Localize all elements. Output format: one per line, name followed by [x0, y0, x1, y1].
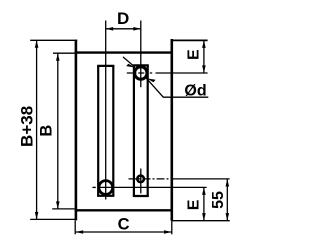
centerline small hole horizontal / 55 extension — [129, 178, 172, 180]
centerline top circle horizontal — [127, 72, 152, 74]
centerline left circle horizontal / E extension — [92, 186, 95, 188]
right slot small bottom hole — [137, 176, 144, 183]
extension line E top right — [171, 39, 208, 41]
dimension E bottom right line — [203, 187, 205, 220]
svg-text:D: D — [117, 9, 129, 28]
left slot outline — [97, 66, 114, 196]
svg-text:E: E — [186, 199, 203, 210]
plate left edge — [75, 40, 78, 221]
arrow Od upper pointing SE — [126, 64, 135, 68]
dimension C line — [76, 231, 172, 233]
arrow E top down — [202, 65, 206, 73]
left slot bottom circle — [99, 181, 113, 195]
plate bottom edge — [75, 209, 173, 211]
arrow Od lower pointing NW — [146, 78, 155, 82]
extension line B bottom — [52, 208, 74, 210]
svg-text:B: B — [38, 125, 56, 137]
arrow 55 up — [226, 179, 230, 187]
arrow B top — [56, 53, 60, 61]
arrow E top up — [202, 40, 206, 48]
extension line C left — [74, 221, 76, 235]
dimension D line — [106, 28, 141, 30]
centerline right slot vertical top — [140, 21, 142, 88]
dimension B line — [57, 53, 59, 209]
arrow 55 down — [226, 213, 230, 221]
extension line bottom right — [172, 220, 230, 222]
arrow C left — [76, 230, 84, 234]
extension line B+38 bottom — [30, 218, 76, 220]
plate right edge — [171, 39, 174, 221]
arrow C right — [164, 230, 172, 234]
centerline right slot vertical bottom — [140, 169, 142, 194]
dimension E top right line — [203, 40, 205, 73]
arrow B bottom — [56, 201, 60, 209]
dimension Od leader upper segment — [123, 57, 135, 67]
extension line C right — [171, 221, 173, 235]
svg-text:55: 55 — [210, 191, 227, 209]
svg-text:E: E — [186, 49, 203, 60]
right slot top circle (hole d) — [135, 67, 147, 79]
centerline left slot vertical — [105, 21, 107, 200]
plate top edge — [75, 51, 173, 53]
arrow D left — [106, 27, 114, 31]
extension line B top — [53, 52, 75, 54]
svg-text:C: C — [118, 215, 130, 233]
arrow E bottom down — [202, 213, 206, 221]
arrow B+38 bottom — [35, 212, 39, 220]
dimension Od leader lower segment — [146, 78, 208, 97]
arrow D right — [133, 27, 141, 31]
arrow B+38 top — [35, 40, 39, 48]
arrow E bottom up — [202, 187, 206, 195]
extension line B+38 top — [30, 39, 77, 41]
right slot outline — [133, 65, 149, 196]
svg-text:B+38: B+38 — [18, 106, 37, 147]
dimension B+38 line — [36, 40, 38, 219]
svg-text:Ød: Ød — [184, 82, 206, 99]
E top extension from circle center — [156, 72, 208, 74]
dimension 55 line — [226, 179, 228, 221]
